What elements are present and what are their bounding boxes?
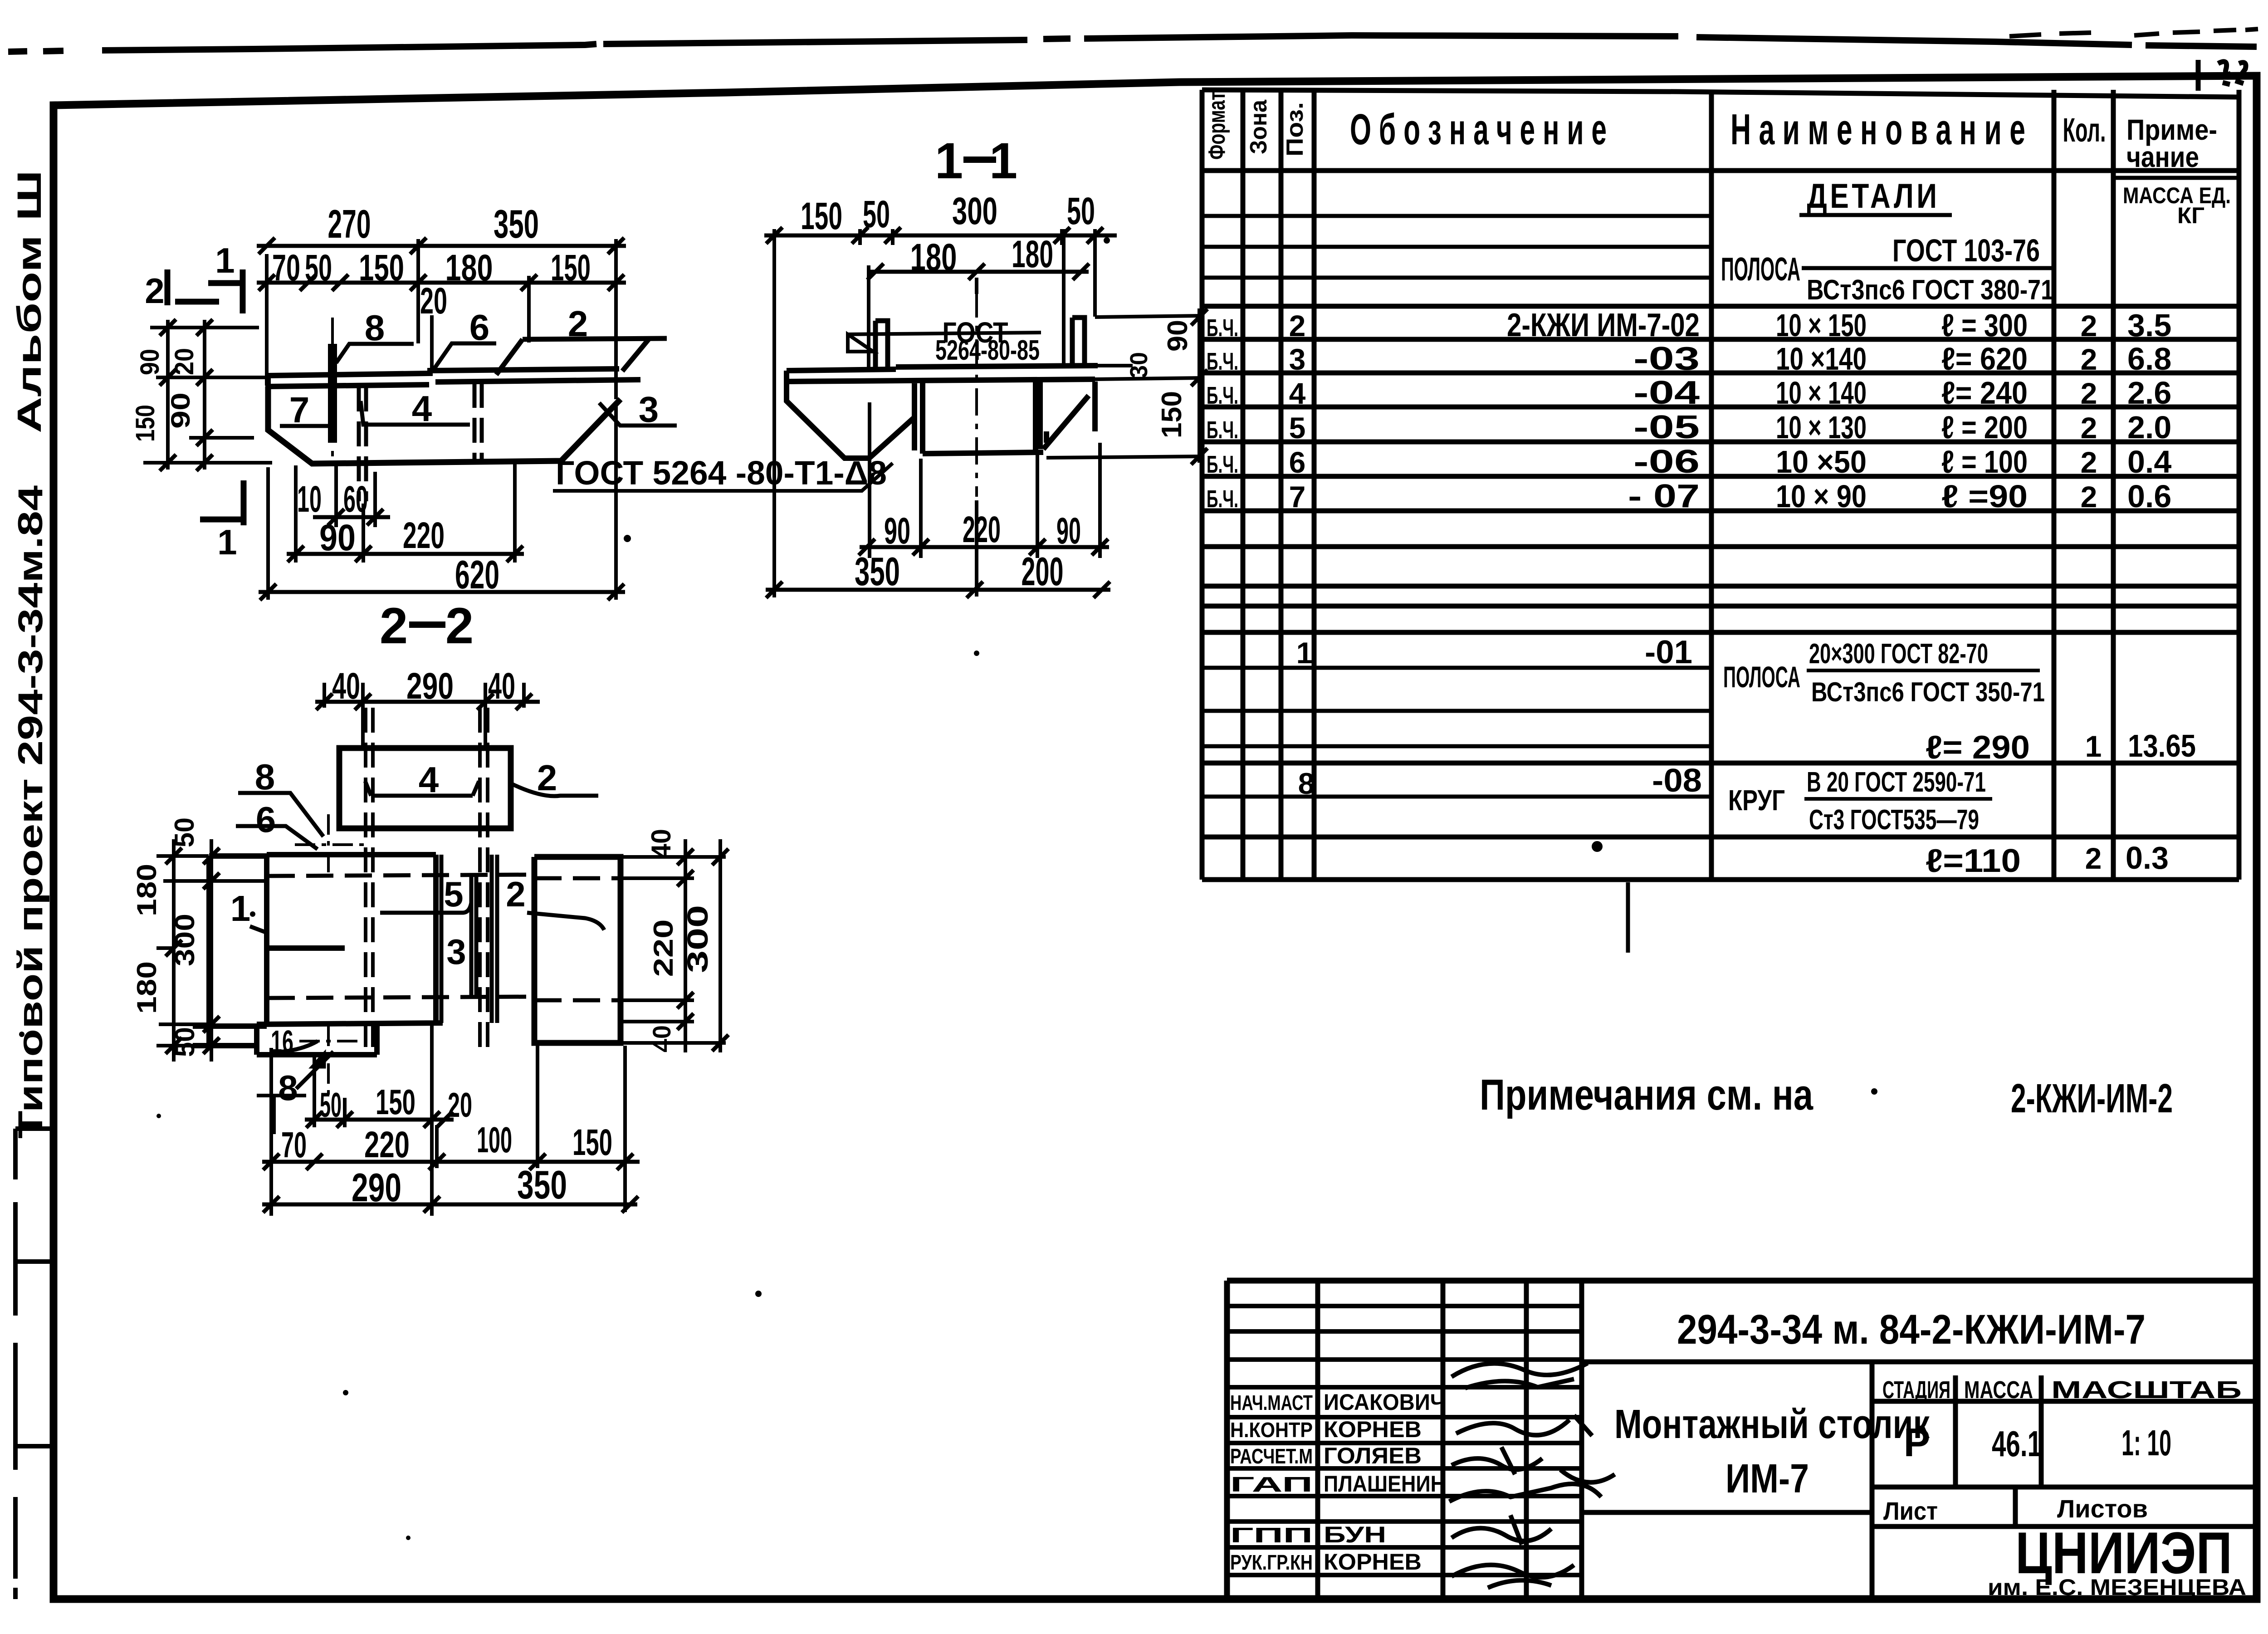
- main view: bolt centerline: [331, 318, 334, 458]
- svg-text:1: 1: [935, 132, 963, 189]
- svg-text:90: 90: [166, 392, 196, 429]
- svg-text:Примечания см. на: Примечания см. на: [1480, 1071, 1813, 1119]
- svg-text:20: 20: [420, 280, 447, 322]
- svg-text:16: 16: [271, 1024, 293, 1059]
- svg-text:3: 3: [446, 932, 466, 972]
- svg-text:Листов: Листов: [2057, 1494, 2148, 1523]
- main view: bent plate item 2 on top: [496, 338, 667, 375]
- svg-text:270: 270: [328, 201, 371, 246]
- svg-text:20: 20: [448, 1086, 472, 1125]
- svg-text:50: 50: [320, 1086, 342, 1125]
- section view 1-1: [553, 132, 1207, 598]
- svg-text:3: 3: [639, 389, 659, 430]
- signature squiggles: [1452, 1363, 1588, 1388]
- left dim verticals 2-2: [174, 839, 211, 1062]
- svg-text:220: 220: [648, 920, 679, 977]
- svg-text:2-КЖИ-ИМ-2: 2-КЖИ-ИМ-2: [2011, 1076, 2173, 1121]
- specification table grid: horizontals: [1202, 90, 2239, 97]
- svg-text:150: 150: [551, 247, 591, 289]
- left extension lines: [143, 328, 272, 463]
- svg-text:150: 150: [376, 1082, 415, 1122]
- svg-text:2: 2: [2085, 841, 2102, 875]
- svg-text:70: 70: [272, 247, 300, 289]
- svg-text:КГ: КГ: [2177, 203, 2204, 228]
- left-region sub row lines: [1202, 214, 1711, 218]
- svg-text:ℓ = 300: ℓ = 300: [1941, 308, 2028, 343]
- svg-text:Зона: Зона: [1246, 99, 1272, 154]
- bottom extension verticals 2-2: [271, 1024, 625, 1216]
- svg-text:Н.КОНТР: Н.КОНТР: [1230, 1418, 1313, 1442]
- svg-text:290: 290: [406, 665, 454, 707]
- svg-text:350: 350: [517, 1162, 567, 1207]
- plan: right block hidden dashes: [534, 878, 621, 1000]
- svg-text:7: 7: [289, 390, 310, 430]
- svg-text:150: 150: [801, 195, 842, 237]
- svg-text:620: 620: [455, 552, 499, 597]
- leader item 3: [599, 403, 677, 426]
- svg-text:КОРНЕВ: КОРНЕВ: [1324, 1417, 1422, 1442]
- svg-text:2: 2: [145, 271, 164, 311]
- section 1-1: right bolt tab: [1072, 318, 1085, 366]
- svg-text:50: 50: [169, 817, 200, 847]
- dim line 350/200: [766, 588, 1110, 592]
- svg-text:РУК.ГР.КН: РУК.ГР.КН: [1230, 1551, 1313, 1574]
- svg-text:ГПП: ГПП: [1230, 1523, 1313, 1547]
- svg-text:50: 50: [305, 247, 332, 289]
- svg-text:60: 60: [343, 479, 368, 520]
- plan: main plate item 1: [257, 855, 443, 1024]
- svg-text:70: 70: [281, 1125, 307, 1165]
- sub header масса ед кг: [2113, 176, 2239, 180]
- svg-text:10: 10: [297, 479, 322, 520]
- plan: hidden edge dashes upper: [268, 875, 535, 876]
- svg-text:300: 300: [170, 914, 200, 966]
- title block: main dividers: [1582, 1362, 2257, 1599]
- svg-text:О б о з н а ч е н и е: О б о з н а ч е н и е: [1350, 105, 1607, 154]
- svg-text:40: 40: [647, 1025, 676, 1052]
- svg-text:90: 90: [135, 349, 165, 375]
- svg-text:БУН: БУН: [1324, 1522, 1386, 1547]
- svg-text:6.8: 6.8: [2127, 341, 2171, 377]
- svg-text:0.4: 0.4: [2127, 444, 2171, 479]
- svg-text:1: 1: [230, 888, 251, 929]
- dim line 50/150/20: [305, 1118, 454, 1122]
- svg-text:Типовой проект 294-3-34м.84: Типовой проект 294-3-34м.84: [11, 485, 50, 1139]
- main view: hidden rib lines (dashed pair left): [357, 386, 361, 501]
- svg-text:150: 150: [131, 405, 160, 442]
- leader item 6: [236, 826, 318, 849]
- title block: [1227, 1281, 2257, 1600]
- svg-text:чание: чание: [2126, 141, 2199, 173]
- svg-text:ℓ=110: ℓ=110: [1926, 843, 2021, 879]
- svg-text:Б.Ч.: Б.Ч.: [1207, 451, 1238, 478]
- svg-text:Формат: Формат: [1204, 92, 1230, 160]
- bottom extension verticals: [870, 402, 1100, 597]
- svg-text:ℓ = 200: ℓ = 200: [1941, 410, 2028, 445]
- svg-text:МАСШТАБ: МАСШТАБ: [2051, 1376, 2242, 1404]
- right dim verticals 2-2: [685, 839, 720, 1052]
- svg-text:2: 2: [2081, 411, 2097, 445]
- svg-text:10 × 130: 10 × 130: [1776, 410, 1867, 445]
- svg-text:7: 7: [1289, 480, 1306, 514]
- svg-text:10 ×140: 10 ×140: [1776, 341, 1867, 377]
- svg-text:0.6: 0.6: [2127, 479, 2171, 514]
- svg-text:ДЕТАЛИ: ДЕТАЛИ: [1807, 177, 1940, 215]
- svg-text:8: 8: [1298, 767, 1315, 800]
- main view: top plate item 1: [268, 369, 619, 376]
- svg-text:20×300 ГОСТ 82-70: 20×300 ГОСТ 82-70: [1809, 638, 1988, 670]
- svg-text:290: 290: [352, 1165, 401, 1210]
- plan: hidden edge dashes lower: [268, 997, 535, 998]
- svg-text:-03: -03: [1633, 341, 1700, 377]
- svg-text:СТАДИЯ: СТАДИЯ: [1882, 1376, 1950, 1404]
- svg-text:2: 2: [2081, 445, 2097, 479]
- stray vertical below table: [1626, 882, 1630, 953]
- section 1-1: left gusset item 3: [787, 382, 914, 458]
- svg-text:6: 6: [469, 307, 490, 347]
- svg-text:НАЧ.МАСТ: НАЧ.МАСТ: [1230, 1391, 1313, 1414]
- svg-text:1: 1: [1296, 636, 1313, 670]
- leader item 2 (top right): [511, 783, 598, 796]
- svg-text:Б.Ч.: Б.Ч.: [1207, 382, 1238, 409]
- specification table: [1202, 90, 2239, 953]
- section mark 1 (top): [208, 269, 243, 313]
- svg-text:2: 2: [380, 597, 408, 654]
- leader item 4: [365, 781, 479, 796]
- svg-text:5: 5: [444, 874, 463, 914]
- svg-text:1: 1: [989, 132, 1017, 189]
- svg-text:180: 180: [132, 961, 162, 1014]
- svg-text:ИМ-7: ИМ-7: [1725, 1456, 1809, 1502]
- svg-text:-05: -05: [1633, 409, 1700, 445]
- svg-text:5264-80-85: 5264-80-85: [935, 335, 1040, 366]
- dim line 40/290/40: [315, 700, 540, 704]
- title block: left row lines: [1227, 1304, 1582, 1308]
- svg-text:10 × 90: 10 × 90: [1776, 479, 1867, 514]
- svg-text:ℓ = 100: ℓ = 100: [1941, 444, 2028, 479]
- leader item 8: [238, 793, 323, 837]
- section mark 2 (top): [167, 269, 219, 305]
- svg-text:13.65: 13.65: [2128, 728, 2196, 763]
- svg-text:2: 2: [1289, 309, 1306, 342]
- svg-text:МАССА ЕД.: МАССА ЕД.: [2123, 183, 2231, 208]
- right dim vertical 90/30/150: [1198, 308, 1201, 463]
- svg-text:ℓ= 290: ℓ= 290: [1926, 729, 2030, 766]
- svg-text:- 07: - 07: [1628, 478, 1700, 514]
- section 1-1: plate (top flange): [787, 366, 1098, 382]
- svg-text:ГАП: ГАП: [1230, 1473, 1313, 1496]
- svg-text:Альбом Ш: Альбом Ш: [10, 170, 48, 433]
- label 16 with leader: [271, 1041, 318, 1052]
- dim line 180/180: [867, 270, 1089, 274]
- ink dot in table: [1592, 841, 1603, 852]
- notes text: [1480, 1071, 2173, 1121]
- svg-text:8: 8: [278, 1068, 298, 1108]
- label 8 with weld flag leader: [296, 1052, 333, 1089]
- svg-text:1: 1: [215, 240, 235, 280]
- svg-text:2-КЖИ ИМ-7-02: 2-КЖИ ИМ-7-02: [1507, 307, 1700, 343]
- svg-text:2: 2: [445, 597, 474, 654]
- svg-text:ГОСТ 103-76: ГОСТ 103-76: [1892, 233, 2040, 268]
- svg-text:1: 1: [2085, 729, 2102, 763]
- svg-text:90: 90: [884, 510, 910, 552]
- plan: left flange block: [193, 856, 267, 1047]
- svg-text:6: 6: [256, 799, 276, 840]
- leader item 4: [361, 401, 470, 425]
- svg-text:2: 2: [506, 874, 525, 914]
- svg-text:ВСт3пс6 ГОСТ 350-71: ВСт3пс6 ГОСТ 350-71: [1811, 677, 2045, 707]
- svg-text:Кол.: Кол.: [2063, 111, 2106, 149]
- svg-text:3: 3: [1289, 342, 1306, 376]
- svg-text:2.6: 2.6: [2127, 375, 2171, 411]
- scan artifact: specks: [624, 535, 631, 542]
- svg-text:2: 2: [537, 758, 557, 798]
- svg-text:4: 4: [1289, 377, 1306, 410]
- svg-text:40: 40: [646, 829, 676, 859]
- svg-text:90: 90: [1162, 320, 1193, 352]
- title block outline: [1227, 1281, 2257, 1599]
- main view: hidden rib lines (dashed pair right): [473, 383, 477, 460]
- svg-text:50: 50: [863, 193, 890, 235]
- svg-text:4: 4: [412, 388, 432, 429]
- svg-text:30: 30: [1125, 352, 1153, 378]
- svg-text:2: 2: [2081, 342, 2097, 376]
- svg-text:40: 40: [488, 665, 515, 707]
- title block: left column verticals: [1318, 1281, 1582, 1599]
- svg-text:ГОСТ 5264 -80-Т1-Δ8: ГОСТ 5264 -80-Т1-Δ8: [556, 454, 887, 492]
- svg-text:ℓ= 240: ℓ= 240: [1941, 375, 2028, 411]
- svg-text:200: 200: [1022, 549, 1064, 594]
- svg-text:8: 8: [255, 757, 275, 797]
- svg-text:300: 300: [681, 905, 714, 973]
- svg-text:150: 150: [359, 247, 404, 289]
- left dim verticals: [168, 320, 205, 470]
- svg-text:РАСЧЕТ.М: РАСЧЕТ.М: [1230, 1444, 1313, 1468]
- svg-text:Б.Ч.: Б.Ч.: [1207, 314, 1238, 342]
- svg-text:3.5: 3.5: [2127, 308, 2171, 343]
- left extension lines 2-2: [156, 856, 267, 1046]
- svg-text:180: 180: [1012, 233, 1053, 275]
- section mark 1 (bottom): [200, 480, 244, 525]
- right extension lines 2-2: [621, 857, 726, 1043]
- svg-text:Ст3 ГОСТ535—79: Ст3 ГОСТ535—79: [1809, 804, 1979, 836]
- leader item 8: [336, 344, 414, 363]
- svg-text:-01: -01: [1645, 634, 1692, 670]
- svg-text:Поз.: Поз.: [1282, 102, 1308, 157]
- svg-text:180: 180: [910, 236, 957, 279]
- svg-text:220: 220: [364, 1124, 410, 1165]
- plan: hidden lines through item 4 (left pair): [366, 708, 373, 1057]
- svg-text:90: 90: [319, 517, 356, 558]
- svg-text:Н а и м е н о в а н и е: Н а и м е н о в а н и е: [1730, 105, 2025, 154]
- scan artifact: corner mark top right: [2198, 60, 2246, 91]
- svg-text:300: 300: [952, 190, 997, 232]
- svg-text:90: 90: [1056, 510, 1081, 552]
- dim line 150/50/300/50: [764, 234, 1117, 238]
- svg-text:5: 5: [1289, 411, 1306, 445]
- section 1-1: left bolt tab: [875, 321, 888, 369]
- main view of mounting table: [131, 201, 677, 600]
- extension verticals: [774, 229, 1095, 597]
- svg-text:2: 2: [568, 303, 588, 344]
- svg-text:Монтажный столик: Монтажный столик: [1614, 1402, 1930, 1447]
- svg-text:1: 1: [217, 522, 237, 562]
- svg-text:2: 2: [2081, 377, 2097, 410]
- svg-text:ВСт3пс6 ГОСТ 380-71: ВСт3пс6 ГОСТ 380-71: [1807, 274, 2054, 306]
- svg-text:КРУГ: КРУГ: [1728, 784, 1785, 817]
- svg-text:-08: -08: [1652, 763, 1702, 799]
- label item 2 (right): [527, 913, 604, 930]
- dim 90/220: [287, 552, 524, 556]
- svg-text:50: 50: [170, 1027, 200, 1057]
- label item 5: [380, 903, 471, 913]
- svg-text:0.3: 0.3: [2126, 840, 2169, 876]
- dim line 290/350: [262, 1203, 637, 1207]
- bolt centre cross (bottom): [327, 1026, 330, 1099]
- svg-text:В 20 ГОСТ 2590-71: В 20 ГОСТ 2590-71: [1807, 767, 1986, 798]
- svg-text:350: 350: [855, 549, 900, 594]
- scan artifact: top edge line: [8, 35, 2257, 52]
- plan: right flange block: [534, 857, 621, 1043]
- svg-text:ℓ =90: ℓ =90: [1941, 479, 2028, 514]
- section 1-1: centreline: [975, 290, 978, 497]
- svg-text:-04: -04: [1633, 375, 1700, 411]
- svg-text:ПЛАШЕНИН: ПЛАШЕНИН: [1324, 1471, 1445, 1497]
- section view 2-2 (plan): [132, 597, 728, 1216]
- svg-text:10 ×50: 10 ×50: [1776, 444, 1867, 479]
- leader item 6: [434, 343, 496, 369]
- svg-text:Лист: Лист: [1883, 1497, 1938, 1525]
- main view: bottom skirt outline: [268, 386, 621, 464]
- svg-text:ℓ= 620: ℓ= 620: [1941, 341, 2028, 377]
- svg-text:4: 4: [419, 759, 439, 800]
- dim line 70/50/150/180/150: [257, 281, 626, 285]
- svg-text:180: 180: [445, 247, 493, 289]
- dim 620: [259, 590, 625, 594]
- svg-text:2: 2: [2081, 480, 2097, 514]
- svg-text:40: 40: [332, 665, 360, 707]
- main view: anchor bolt item 8 (vertical bar): [328, 344, 337, 443]
- svg-text:150: 150: [1156, 391, 1188, 438]
- leader item 7: [280, 409, 334, 426]
- svg-text:ГОЛЯЕВ: ГОЛЯЕВ: [1324, 1443, 1422, 1468]
- svg-text:-06: -06: [1633, 444, 1700, 480]
- svg-text:20: 20: [170, 348, 199, 375]
- svg-text:Б.Ч.: Б.Ч.: [1207, 416, 1238, 444]
- svg-text:Р: Р: [1904, 1420, 1931, 1465]
- svg-text:МАССА: МАССА: [1964, 1376, 2033, 1404]
- svg-text:46.1: 46.1: [1992, 1424, 2042, 1464]
- svg-text:100: 100: [477, 1120, 512, 1160]
- svg-text:8: 8: [365, 308, 385, 348]
- dim line 70/220/100/150: [262, 1160, 640, 1164]
- section 1-1: right gusset: [1040, 382, 1095, 449]
- binding strip cells bottom left: [15, 1126, 54, 1131]
- svg-text:180: 180: [132, 864, 162, 916]
- svg-text:Б.Ч.: Б.Ч.: [1207, 348, 1238, 375]
- svg-text:6: 6: [1289, 445, 1306, 479]
- plan: hidden lines through item 4 (right pair): [480, 708, 488, 1057]
- svg-text:220: 220: [403, 515, 445, 556]
- svg-text:10 × 140: 10 × 140: [1776, 375, 1867, 411]
- plan: top plate item 4: [339, 748, 511, 828]
- section 1-1: right edge extension lines of plate: [1046, 316, 1203, 458]
- svg-text:ИСАКОВИЧ: ИСАКОВИЧ: [1324, 1389, 1445, 1415]
- bolt centre cross (top): [327, 814, 330, 878]
- svg-text:50: 50: [1067, 190, 1095, 232]
- svg-text:2.0: 2.0: [2127, 410, 2171, 445]
- plan: middle rib lines items 5/3: [436, 855, 497, 1023]
- dim extension lines top: [267, 239, 616, 399]
- svg-text:ПОЛОСА: ПОЛОСА: [1721, 251, 1800, 288]
- svg-text:150: 150: [572, 1122, 612, 1163]
- bottom extension verticals: [268, 401, 616, 600]
- svg-text:350: 350: [494, 201, 539, 246]
- svg-text:КОРНЕВ: КОРНЕВ: [1324, 1549, 1422, 1575]
- specification table grid: verticals: [1200, 90, 1205, 880]
- svg-text:10 × 150: 10 × 150: [1776, 308, 1867, 343]
- svg-text:им. Е.С. МЕЗЕНЦЕВА: им. Е.С. МЕЗЕНЦЕВА: [1988, 1575, 2246, 1600]
- plan: bottom tab: [257, 1024, 377, 1055]
- svg-text:Б.Ч.: Б.Ч.: [1207, 485, 1238, 513]
- svg-text:ПОЛОСА: ПОЛОСА: [1723, 660, 1800, 694]
- svg-text:294-3-34 м. 84-2-КЖИ-ИМ-7: 294-3-34 м. 84-2-КЖИ-ИМ-7: [1677, 1306, 2146, 1353]
- svg-text:2: 2: [2081, 309, 2097, 342]
- label item 1: [250, 926, 267, 933]
- svg-text:220: 220: [963, 509, 1001, 550]
- section 1-1: centre block item 1: [923, 382, 1043, 454]
- svg-text:1: 10: 1: 10: [2121, 1423, 2171, 1463]
- dim line 270/350: [257, 244, 626, 248]
- dim line 90/220/90: [860, 545, 1109, 549]
